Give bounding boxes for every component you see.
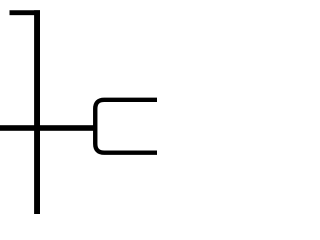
wire: top horizontal segment [10, 10, 41, 15]
component block U1 (rounded box, partially visible at right) [95, 100, 170, 153]
wire: vertical bus line [34, 10, 40, 214]
wire: middle horizontal segment to block [0, 125, 96, 131]
